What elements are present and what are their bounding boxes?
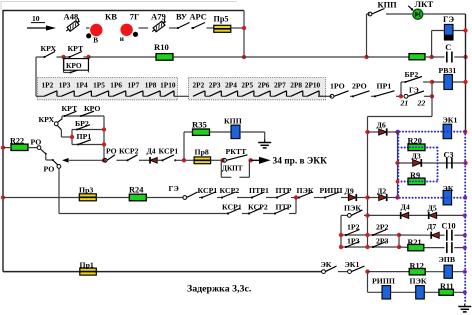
highlight dotted vert x437.5 [437, 148, 439, 182]
svg-text:2Р5: 2Р5 [241, 81, 253, 90]
svg-text:А48: А48 [64, 11, 80, 21]
svg-text:1РО: 1РО [330, 81, 345, 90]
capacitor С3 [446, 158, 453, 169]
relay coil КПП [231, 125, 240, 139]
svg-text:Д2: Д2 [377, 186, 386, 195]
diode Д9 [348, 194, 356, 201]
w6 [341, 197, 349, 199]
switch РКТТ [223, 155, 248, 162]
svg-text:КРХ: КРХ [39, 115, 55, 124]
wire row2b up to row1 [295, 198, 297, 214]
svg-text:7Г: 7Г [130, 13, 140, 22]
junction РКТТ left [220, 158, 224, 162]
wire КРТ end [84, 56, 89, 58]
svg-text:КРТ: КРТ [68, 44, 85, 53]
svg-text:ЭК1: ЭК1 [345, 260, 360, 269]
junction border/row1 [1, 195, 5, 199]
wire y116.5 horizontal [368, 116, 433, 118]
wire РО elbow [45, 154, 47, 160]
wire to КРТ blade [64, 56, 70, 58]
wire КПП branch vertical [366, 14, 368, 57]
svg-text:R20: R20 [408, 136, 422, 145]
svg-text:РО: РО [44, 164, 55, 173]
switch ПТР1 (row1) [251, 192, 265, 199]
wire КПП row segment [367, 13, 371, 15]
wire ЛКТ to corner [423, 13, 465, 15]
contact ГЭ (21-22) [404, 91, 432, 98]
relay coil ЭК1 [443, 124, 452, 139]
wire ГЭ-КСР1 [199, 197, 202, 199]
wire left border bus [2, 11, 4, 272]
junction x367.5/ПЭК row [365, 213, 369, 217]
wire R30 to node [425, 56, 432, 58]
wire 7Г to A79 [139, 27, 149, 29]
w18 [424, 247, 445, 249]
junction x104/ПР1 [102, 142, 106, 146]
highlight dotted R9 row [398, 181, 437, 183]
svg-text:10: 10 [32, 14, 40, 23]
diode Д6 [379, 128, 387, 135]
svg-text:2Р3: 2Р3 [376, 237, 389, 246]
wire x244 to x366.5 [244, 56, 367, 58]
diode Д4 (right) [401, 212, 409, 219]
svg-text:Д4: Д4 [147, 147, 156, 156]
junction row2/x244 [242, 55, 246, 59]
switch КСР1 (row1) [201, 192, 216, 199]
svg-text:КСР2: КСР2 [248, 202, 268, 211]
junction R35 branch [182, 158, 186, 162]
junction x431.6 row2 [429, 55, 433, 59]
resistor (unlabeled) row2 right [409, 54, 425, 60]
wire Д4-КСР1 [157, 159, 162, 161]
junction Д6 row [365, 130, 369, 134]
diode Д4 (row160) [150, 157, 157, 164]
svg-text:АРС: АРС [190, 13, 207, 22]
wire КСР1 to node184 [175, 159, 194, 161]
switch РИПП (row1) [324, 192, 340, 199]
svg-text:КПП: КПП [378, 0, 398, 9]
svg-text:R24: R24 [129, 185, 144, 194]
wire 2РО-ПР1 [371, 95, 375, 97]
junction 341/235 [339, 233, 343, 237]
svg-text:2Р2: 2Р2 [376, 223, 389, 232]
svg-text:1Р6: 1Р6 [110, 81, 122, 90]
junction 399/246.5 [397, 245, 401, 249]
resistor R35 [193, 129, 210, 135]
svg-text:1Р2: 1Р2 [347, 223, 360, 232]
wire row160 left [69, 159, 106, 161]
switch 2Р2 [372, 230, 387, 237]
switch 2Р3 [372, 242, 387, 249]
wire R24 to ГЭ contact [146, 197, 183, 199]
resistor R12 [409, 269, 425, 275]
wire vert x341 [340, 215, 342, 247]
svg-text:1Р7: 1Р7 [128, 81, 140, 90]
w19 [454, 247, 465, 249]
junction x397.5/Д3 row [395, 161, 399, 165]
wire bottom branch vertical x367.5 [367, 272, 369, 293]
switch КРХ (row2) [43, 52, 55, 59]
svg-text:1Р3: 1Р3 [59, 81, 71, 90]
capacitor С10 upper [446, 230, 453, 241]
wire faint top artifact [1, 2, 237, 11]
capacitor С [446, 52, 453, 63]
switch 1Р3 [345, 242, 360, 249]
w13 [364, 214, 368, 216]
resistor R11 [439, 289, 454, 295]
junction bus/С row [463, 55, 467, 59]
svg-text:2Р8: 2Р8 [290, 81, 302, 90]
wire РИПП row [368, 291, 466, 293]
svg-text:ПТР1: ПТР1 [249, 186, 269, 195]
switch 2РО [352, 91, 370, 98]
w2 [237, 197, 252, 199]
wire x366.5 to R30 [367, 56, 409, 58]
wire С to bus [454, 56, 465, 58]
svg-text:Пр3: Пр3 [79, 186, 93, 195]
wire bottom to R12 [368, 271, 410, 273]
junction 367.5/1Р2 [365, 233, 369, 237]
svg-text:2Р2: 2Р2 [193, 81, 205, 90]
junction 399/235 [397, 233, 401, 237]
svg-text:1Р3: 1Р3 [347, 237, 360, 246]
svg-text:R10: R10 [154, 42, 169, 52]
wire КПП to ЛКТ [386, 13, 412, 15]
wire border to R22 [3, 147, 10, 149]
circuit breaker A79 [151, 19, 168, 34]
svg-text:КСР1: КСР1 [198, 186, 218, 195]
switch ПР1 (row P) [374, 91, 395, 98]
junction КРО right [86, 55, 90, 59]
wire Д3 row [398, 162, 466, 164]
svg-text:R35: R35 [192, 119, 207, 129]
svg-text:РИПП: РИПП [320, 186, 343, 195]
junction bus/ЭК row [463, 196, 467, 200]
resistor R24 [129, 194, 146, 201]
wire 1РО-2РО [350, 95, 353, 97]
junction 367.5/1Р3 [365, 245, 369, 249]
w10 [242, 213, 249, 215]
wire vert x397.5 [397, 132, 399, 198]
wire row2 left corner down [35, 57, 37, 96]
relay coil РВ31 [444, 75, 453, 90]
wire ПЭК row left corner [341, 214, 347, 216]
junction row2b rejoin [294, 195, 298, 199]
switch ПТР (row1) [276, 192, 290, 199]
contact end dot КСР1 [174, 159, 176, 161]
wire БР2 branch right vert [431, 82, 433, 96]
w11 [263, 213, 275, 215]
branch КРО (row2) [64, 57, 89, 74]
svg-text:2Р7: 2Р7 [274, 81, 286, 90]
switch ПР1 (block2) [77, 140, 91, 146]
svg-text:Д9: Д9 [345, 186, 354, 195]
contact БР2 (parallel) [401, 77, 432, 84]
svg-text:Д5: Д5 [428, 204, 437, 213]
svg-text:ПЭК: ПЭК [410, 276, 427, 285]
switch 1Р2 [345, 230, 360, 237]
wire node to cap С [432, 56, 445, 58]
junction row1/x244 [242, 26, 246, 30]
wire 1Р3 row [341, 246, 399, 248]
svg-text:1Р5: 1Р5 [93, 81, 105, 90]
svg-text:РКТТ: РКТТ [226, 147, 248, 156]
svg-text:БР2: БР2 [75, 119, 89, 128]
lamp 7Г (КВ contact н) [120, 24, 138, 43]
svg-text:ПЭК: ПЭК [297, 186, 314, 195]
junction x397.5/row1 [395, 195, 399, 199]
diode Д7 [431, 232, 439, 239]
wire Пр8 to РКТТ [211, 159, 223, 161]
fuse Пр3 [79, 194, 96, 201]
relay coil ПЭК [416, 286, 425, 299]
svg-text:R21: R21 [408, 238, 422, 247]
svg-text:Д6: Д6 [377, 120, 386, 129]
junction x104/БР2 [102, 127, 106, 131]
w16 [440, 234, 445, 236]
junction bus/РВ31 [463, 80, 467, 84]
svg-text:н: н [120, 35, 124, 43]
switch ВУ [177, 23, 190, 30]
resistor R9 [408, 178, 425, 185]
svg-text:Д7: Д7 [427, 222, 436, 231]
switch ЭК1 (bottom) [348, 266, 365, 273]
wire АРС to Пр5 [207, 27, 215, 29]
wire ГЭ row [432, 30, 466, 32]
wire R35 branch vertical [183, 132, 185, 160]
svg-text:Д3: Д3 [412, 152, 421, 161]
svg-text:R11: R11 [440, 282, 454, 291]
fuse Пр8 [194, 157, 211, 164]
switch КСР1 (row160) [161, 155, 174, 162]
wire 1Р2 row [341, 234, 399, 236]
valve ГЭ [444, 24, 453, 40]
switch КСР2 (row1) [221, 192, 236, 199]
w1 [217, 197, 222, 199]
svg-text:КСР2: КСР2 [220, 186, 240, 195]
device ДКПТ bracket [220, 160, 222, 177]
w15 [437, 214, 465, 216]
wire Пр5 to node x244 [231, 27, 244, 29]
svg-text:ПР1: ПР1 [77, 132, 92, 141]
svg-text:1Р2: 1Р2 [42, 81, 54, 90]
svg-text:2Р10: 2Р10 [305, 81, 321, 90]
wire right bus (solid) [465, 14, 467, 134]
wire main vertical x367.5 [367, 117, 369, 248]
wire ПЭК row to Д4 [368, 214, 401, 216]
svg-text:КРО: КРО [84, 104, 100, 113]
wire Пр3 to R24 [96, 197, 129, 199]
junction x397.5/ЭК1 row [395, 130, 399, 134]
svg-text:1Р4: 1Р4 [76, 81, 88, 90]
wire ВУ-АРС [191, 27, 193, 29]
arrow terminal row160 [62, 158, 69, 163]
svg-text:R9: R9 [410, 171, 420, 180]
junction КПП branch [364, 55, 368, 59]
junction ГЭ contact left [399, 94, 403, 98]
switch КРТ (row2) [68, 52, 82, 59]
switch КРО (block2) [80, 111, 94, 117]
ground (КПП) [258, 140, 271, 148]
w5 [314, 197, 325, 199]
junction bus/С10b [463, 246, 467, 250]
svg-text:С10: С10 [442, 222, 456, 231]
svg-text:КСР1: КСР1 [222, 202, 242, 211]
capacitor С10 lower [446, 242, 453, 253]
junction x367.5/bottom [365, 269, 369, 273]
wire A79 to ВУ [169, 27, 178, 29]
svg-text:А79: А79 [151, 12, 166, 22]
junction border/R22 [1, 145, 5, 149]
junction bus/ЭПВ [463, 270, 467, 274]
w20 [338, 271, 348, 273]
w8 [368, 197, 380, 199]
svg-text:ЭПВ: ЭПВ [439, 255, 456, 264]
svg-text:С: С [445, 43, 451, 52]
switch ПТР (row2b) [274, 208, 288, 215]
junction РКТТ right [248, 158, 252, 162]
diode Д5 [429, 212, 437, 219]
switch ПЭК (row1) [298, 192, 313, 199]
w17 [454, 234, 465, 236]
switch КСР1 (row2b) [227, 208, 241, 215]
resistor R20 [408, 144, 425, 151]
svg-text:ЭК1: ЭК1 [443, 116, 458, 125]
junction КРО left [61, 55, 65, 59]
svg-text:2Р4: 2Р4 [225, 81, 237, 90]
svg-text:ДКПТ: ДКПТ [222, 165, 243, 173]
block КРТ/КРО/КРХ/БР2/ПР1 wires [62, 115, 104, 117]
svg-text:2Р3: 2Р3 [209, 81, 221, 90]
svg-text:ГЭ: ГЭ [169, 184, 179, 193]
switch КРТ (block2) [64, 111, 77, 117]
wire КПП to ground [240, 131, 265, 133]
wire ПР1 to node401 [396, 95, 401, 97]
svg-text:Пр8: Пр8 [195, 147, 209, 156]
svg-text:КПП: КПП [224, 117, 242, 126]
highlight dotted right bus [464, 131, 466, 303]
svg-text:22: 22 [417, 98, 426, 107]
wire row2b left [59, 213, 228, 215]
fuse Пр1 [80, 268, 97, 275]
wire КРО to R10 [89, 56, 157, 58]
junction bus/С3 row [463, 161, 467, 165]
wire top bus [2, 10, 244, 12]
w22 [425, 271, 465, 273]
svg-text:2РО: 2РО [352, 81, 367, 90]
switch ПЭК (mid) [347, 210, 362, 217]
wire Д6 to node397 [387, 131, 398, 133]
highlight dotted vert x398.5 [397, 131, 399, 197]
wire R35 to КПП coil [210, 131, 232, 133]
w14 [409, 214, 428, 216]
wire РО down to row2b [58, 168, 60, 213]
svg-text:РО: РО [31, 137, 42, 146]
switch ГЭ (row1) [183, 192, 198, 199]
svg-text:КРТ: КРТ [62, 104, 79, 113]
wire row1 border to Пр3 [3, 197, 79, 199]
svg-text:21: 21 [400, 98, 409, 107]
svg-text:КСР1: КСР1 [159, 147, 179, 156]
switch АРС [192, 23, 205, 30]
switch КСР2 (row2b) [248, 208, 262, 215]
svg-text:ЭК: ЭК [443, 184, 454, 193]
resistor R10 [156, 54, 173, 61]
wire Д6 row left [368, 131, 380, 133]
w12 [289, 213, 296, 215]
wire vert x399 [398, 235, 400, 247]
svg-text:КРО: КРО [66, 61, 82, 70]
junction x104/row160 [102, 158, 106, 162]
circuit breaker A48 symbol [65, 18, 82, 33]
relay coil ЭПВ [444, 265, 452, 278]
highlight dotted R20 row [398, 147, 437, 149]
w3 [266, 197, 277, 199]
wire РО-КСР2 [117, 159, 128, 161]
svg-text:ЛКТ: ЛКТ [415, 0, 434, 9]
junction КРХ/БР2/ПР1 [70, 135, 74, 139]
junction БР2/РВ31 [430, 80, 434, 84]
svg-text:ГЭ: ГЭ [443, 15, 454, 24]
highlight dotted ЭК1 row [397, 131, 466, 133]
svg-text:РВ31: РВ31 [439, 66, 457, 75]
svg-text:КРХ: КРХ [41, 44, 57, 53]
junction bus/R11 [463, 290, 467, 294]
svg-text:1Р8: 1Р8 [145, 81, 157, 90]
svg-text:РО: РО [106, 147, 117, 156]
svg-text:1Р10: 1Р10 [160, 81, 176, 90]
wire КРХ-КРТ [57, 56, 64, 58]
svg-text:КВ: КВ [105, 12, 117, 22]
junction bus/Д5 row [463, 213, 467, 217]
lamp ЛКТ [408, 6, 423, 19]
switch КРХ (block2) [54, 119, 62, 130]
junction bus/ГЭ row [463, 28, 467, 32]
wire A48 to lamp B [86, 27, 90, 29]
relay coil ЭК [443, 190, 452, 205]
wire x432 down [431, 96, 433, 116]
lamp B (КВ contact В) [86, 24, 102, 45]
wire vertical x244 [243, 11, 245, 58]
svg-text:ЭК: ЭК [321, 260, 332, 269]
junction bus/ЭК1 row [463, 130, 467, 134]
dashed box 2Р group [189, 78, 326, 100]
contacts 1Р2-1Р10 [36, 95, 44, 97]
wire vert x431.6 (С to ГЭ row) [431, 31, 433, 58]
svg-text:КСР2: КСР2 [119, 147, 139, 156]
diode Д2 [379, 194, 387, 201]
svg-text:ПТР: ПТР [276, 186, 292, 195]
switch РО (lower) [52, 159, 61, 168]
wire РВ31 row [432, 81, 466, 83]
wire R10 to x244 [173, 56, 244, 58]
switch КСР2 (row160) [126, 155, 137, 162]
wire corner to КРХ [36, 56, 45, 58]
svg-text:ПЭК: ПЭК [344, 203, 361, 212]
w4 [291, 197, 299, 199]
wire R21 row [399, 246, 408, 248]
svg-text:ПТР: ПТР [276, 202, 292, 211]
svg-text:R22: R22 [10, 136, 24, 145]
resistor R22 [11, 144, 28, 150]
svg-text:2Р6: 2Р6 [258, 81, 270, 90]
wire R22 to РО [28, 147, 37, 149]
wire Д7 row [399, 234, 431, 236]
svg-text:Пр5: Пр5 [214, 14, 229, 23]
wire КСР2-Д4 [139, 159, 150, 161]
w7 [356, 197, 367, 199]
svg-text:Д4: Д4 [401, 203, 410, 212]
